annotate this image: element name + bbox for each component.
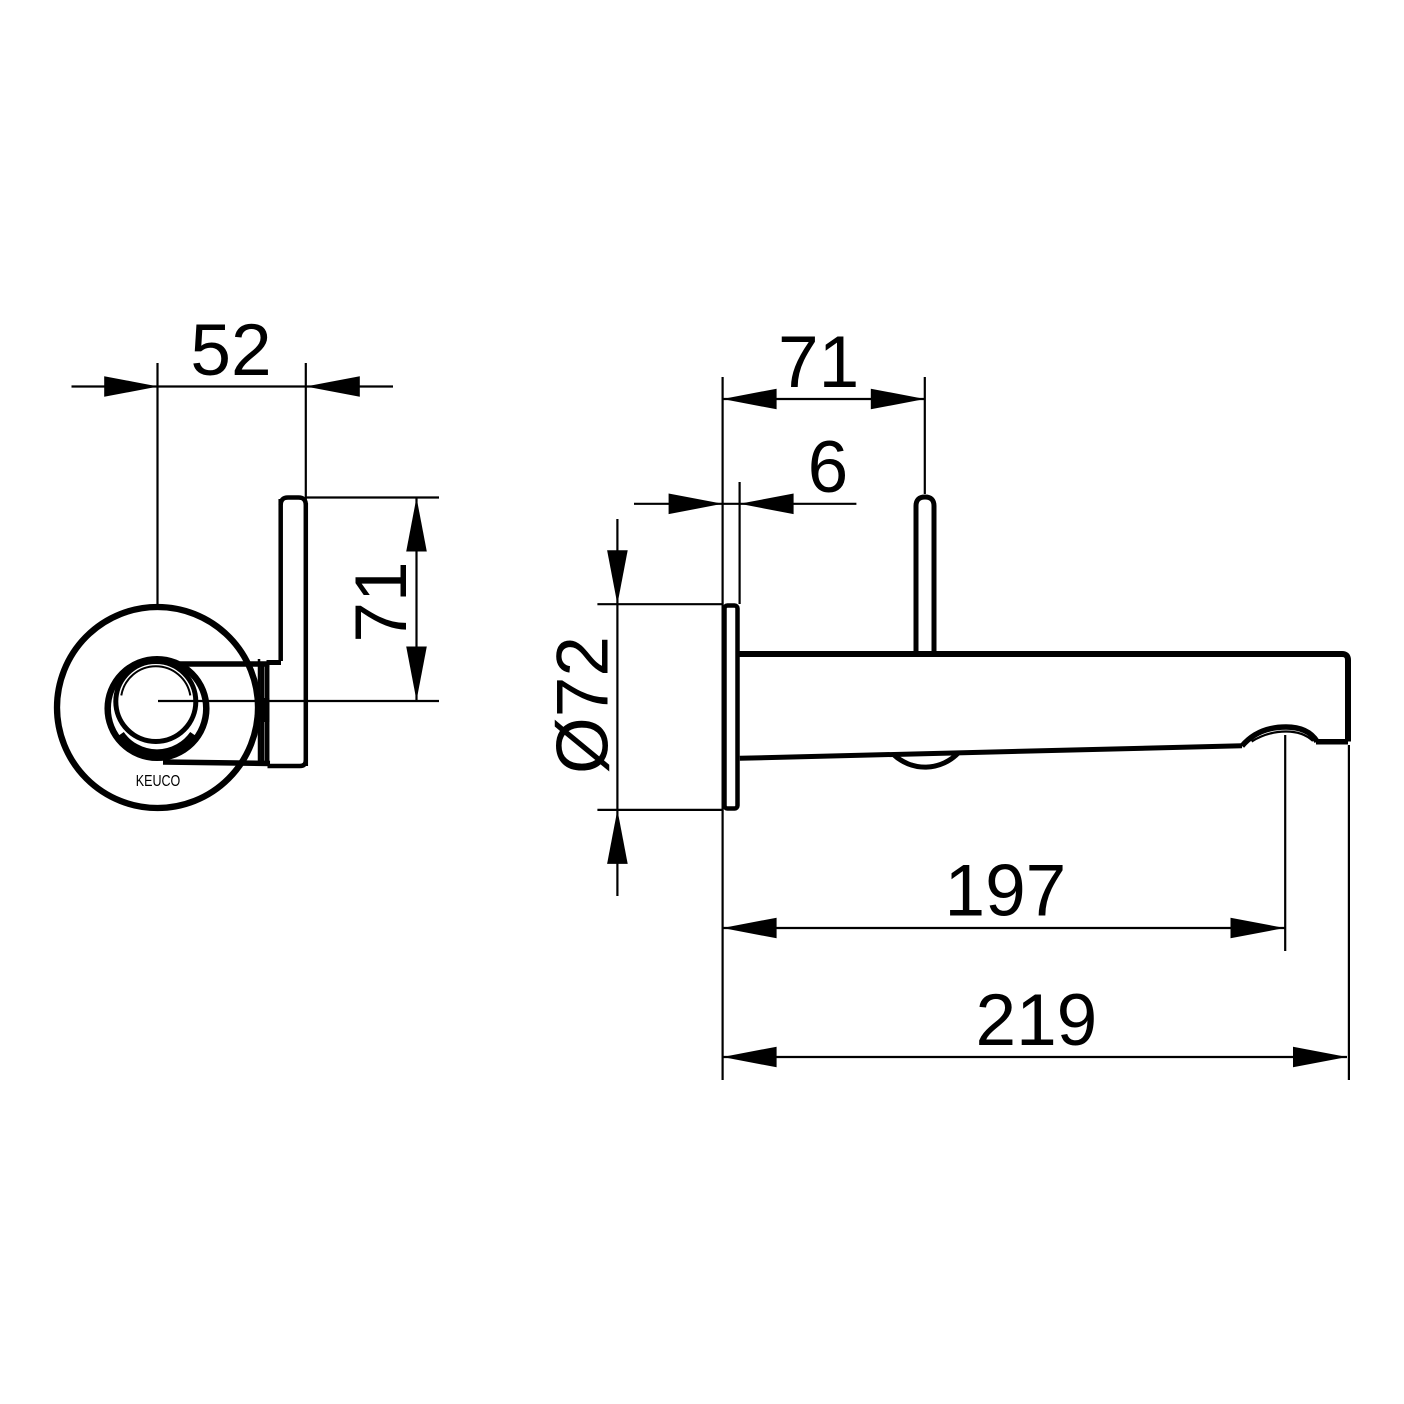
svg-text:KEUCO: KEUCO [136, 773, 181, 790]
dim 6 line [634, 503, 856, 505]
dim 6 right arrow [740, 494, 794, 515]
front view: knob inner circle [116, 662, 196, 742]
dim 52 right arrow [306, 376, 360, 397]
dim 197 line [723, 927, 1285, 929]
dim 71 left view top arrow [406, 498, 427, 552]
front view: escutcheon circle [57, 607, 258, 808]
dim 197 right arrow [1231, 918, 1285, 939]
front view: knob inner thin arc [121, 666, 190, 695]
svg-text:71: 71 [778, 322, 859, 403]
side view: spout top edge and right edge [739, 654, 1348, 742]
dim 71 left view bottom arrow [406, 647, 427, 701]
dim 219 right arrow [1293, 1047, 1347, 1068]
front view: vertical centerline [156, 363, 158, 604]
front view: paddle left edge [278, 499, 283, 661]
dim 6 right extension line [738, 482, 740, 604]
svg-text:Ø72: Ø72 [543, 636, 624, 774]
front view: knob crescent arc [120, 735, 194, 754]
front view: paddle right edge [304, 503, 309, 766]
dim diameter 72 top arrow [607, 550, 628, 604]
front view: paddle step [267, 660, 282, 665]
side view: outlet wave inner arc [1252, 732, 1313, 742]
dim 71 side left arrow [723, 389, 777, 410]
side view: wall plate [725, 606, 738, 809]
svg-text:52: 52 [190, 310, 271, 391]
dim 219 right extension line [1348, 745, 1350, 1080]
side view: aerator dome [894, 753, 959, 767]
dim diameter 72 top extension line [597, 603, 722, 605]
dim 71 left view text [341, 561, 422, 642]
dim 52 left arrow [104, 376, 158, 397]
front view: knob outer circle [108, 659, 207, 758]
dim 71 side right arrow [871, 389, 925, 410]
dim diameter 72 dimension line [616, 519, 618, 896]
dim 71 side left extension line [721, 377, 723, 1080]
dim 71 left view top extension line [306, 496, 439, 498]
side view: lever rod [916, 497, 934, 655]
dim diameter 72 text [543, 636, 624, 774]
dim 71 side dimension line [723, 398, 925, 400]
dim 52 line [72, 385, 394, 387]
front view: neck solid patch [260, 698, 269, 722]
svg-text:219: 219 [975, 980, 1097, 1061]
dim 71 side right extension line [924, 377, 926, 494]
front view: lever arm end line [258, 659, 261, 762]
svg-text:6: 6 [808, 427, 849, 508]
front view: lever arm top edge [180, 661, 270, 667]
front view: neck line a [260, 664, 265, 765]
svg-text:71: 71 [341, 561, 422, 642]
front view: paddle top cap [281, 498, 306, 506]
front view: neck line b [265, 664, 270, 765]
dim 71 left view dimension line [415, 498, 417, 701]
dim diameter 72 bottom arrow [607, 810, 628, 864]
dim 197 right extension line [1284, 735, 1286, 951]
dim diameter 72 bottom extension line [597, 809, 722, 811]
dim 219 left arrow [723, 1047, 777, 1068]
side view: spout bottom right edge [1316, 739, 1348, 745]
dim 197 left arrow [723, 918, 777, 939]
svg-text:197: 197 [944, 851, 1066, 932]
front view: horizontal centerline [158, 700, 439, 702]
front view: paddle bottom edge [268, 760, 306, 766]
front view: lever arm bottom edge [163, 762, 270, 764]
side view: spout underside [740, 746, 1242, 759]
dim 219 line [723, 1056, 1347, 1058]
side view: outlet wave outer arc [1242, 727, 1317, 746]
dim 52 right extension line [305, 363, 307, 500]
dim 6 left arrow [669, 494, 723, 515]
